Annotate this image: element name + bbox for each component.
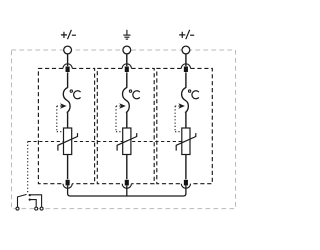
module 2 protection box (dashed) [97,68,154,183]
wire terminal 1 to module 1 [67,54,69,66]
remote signalling terminal circle right [40,207,43,210]
module 3 top plug pin [184,67,188,73]
remote signalling contact: upper rail to NO terminal [30,195,42,207]
bottom common bus wire [68,185,186,196]
module 1 protection box (dashed) [38,68,94,183]
module 3 wire below squiggle [185,112,187,128]
module 3 thermal arrow head [178,103,185,109]
module 1 upper wire [67,72,69,87]
module 1 varistor body [64,128,72,155]
module 2 thermal arrow dotted drop [116,106,122,132]
module 1 thermal arrow head [60,103,67,109]
module 1 top plug pin [66,67,70,73]
module 3 protection box (dashed) [157,68,213,183]
module 1 thermal disconnect squiggle [63,87,70,112]
module 3 °C label [188,90,198,99]
remote signalling contact: lower rail to NC terminal [30,200,37,208]
terminal circle 1 [64,46,72,54]
module 3 top plug-in socket bump [181,64,190,69]
module 2 bottom plug-in socket bump [122,184,131,189]
remote signalling contact: lower fixed contact dot [29,199,31,201]
module 1 °C label [70,90,80,99]
module 2 top plug pin [125,67,129,73]
module 3 thermal disconnect squiggle [182,87,189,112]
module 2 varistor body [123,128,131,155]
module 3 lower wire [185,154,187,179]
module 3 bottom plug-in socket bump [181,184,190,189]
module 3 thermal arrow shaft [175,105,180,107]
module 2 bottom plug pin [125,180,129,186]
module 1 thermal arrow shaft [57,105,62,107]
module 2 thermal arrow head [119,103,126,109]
module 2 wire below squiggle [126,112,128,128]
module 1 top plug-in socket bump [63,64,72,69]
mechanical linkage rail (dashed) [28,141,186,143]
earth symbol above terminal 2 [123,30,130,39]
remote signalling contact: upper fixed contact dot [29,194,31,196]
module 2 thermal disconnect squiggle [122,87,129,112]
module 2 upper wire [126,72,128,87]
module 1 bottom plug-in socket bump [63,184,72,189]
module 1 lower wire [67,154,69,179]
wire terminal 2 to module 2 [126,54,128,66]
module 1 thermal arrow dotted drop [57,106,63,132]
module 3 thermal arrow dotted drop [175,106,181,132]
mechanical linkage drop to remote contact (dotted) [27,142,29,193]
remote signalling contact: common post and lever [18,194,27,207]
module 2 lower wire [126,154,128,179]
module 1 bottom plug pin [66,180,70,186]
module 2 varistor diagonal [117,133,137,151]
wire terminal 3 to module 3 [185,54,187,66]
terminal circle 2 [123,46,131,54]
module 3 varistor diagonal [176,133,196,151]
label +/- terminal 1 [61,30,76,39]
label +/- terminal 3 [179,30,194,39]
terminal circle 3 [182,46,190,54]
outer enclosure dashed border [12,50,236,209]
remote signalling terminal circle left [16,207,19,210]
module 3 bottom plug pin [184,180,188,186]
module 3 upper wire [185,72,187,87]
module 3 varistor body [182,128,190,155]
module 1 varistor diagonal [58,133,78,151]
remote signalling terminal circle middle [35,207,38,210]
module 2 thermal arrow shaft [116,105,121,107]
module 2 °C label [129,90,139,99]
module 2 top plug-in socket bump [122,64,131,69]
module 2 wire to bus [126,185,128,196]
module 1 wire below squiggle [67,112,69,128]
